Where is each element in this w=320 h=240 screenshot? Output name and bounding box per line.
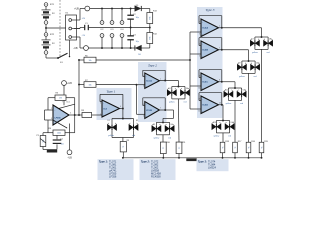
svg-text:IC4.A: IC4.A (202, 27, 208, 30)
svg-text:IC4: IC4 (121, 29, 124, 31)
svg-text:3: 3 (143, 86, 144, 88)
svg-text:+UB: +UB (67, 83, 72, 85)
svg-text:100k: 100k (57, 133, 61, 135)
svg-text:IC3: IC3 (111, 29, 114, 31)
svg-text:red: red (240, 103, 243, 105)
svg-text:yellow: yellow (154, 137, 160, 139)
svg-text:10k: 10k (88, 60, 91, 62)
svg-text:D6: D6 (171, 124, 173, 126)
svg-text:RC4558: RC4558 (151, 174, 161, 178)
svg-text:D2: D2 (136, 120, 138, 122)
svg-text:8: 8 (102, 22, 103, 24)
svg-text:1k: 1k (162, 147, 164, 149)
svg-text:10n: 10n (61, 144, 64, 146)
svg-text:4: 4 (102, 35, 103, 37)
svg-text:1k: 1k (122, 146, 124, 148)
svg-text:LF356: LF356 (109, 174, 117, 178)
svg-text:1k: 1k (233, 147, 235, 149)
svg-text:2: 2 (51, 108, 52, 110)
svg-text:yellow: yellow (108, 135, 114, 137)
svg-text:red: red (254, 76, 257, 78)
svg-text:red: red (228, 135, 231, 137)
svg-text:+UB: +UB (74, 9, 79, 11)
svg-text:D8: D8 (269, 39, 271, 41)
svg-text:red: red (168, 137, 171, 139)
svg-text:10: 10 (198, 88, 200, 90)
svg-text:10k: 10k (88, 84, 91, 86)
svg-text:1M: 1M (59, 98, 62, 100)
svg-text:D4: D4 (186, 88, 188, 90)
svg-text:D10: D10 (256, 63, 259, 65)
svg-text:yellow: yellow (169, 101, 175, 103)
svg-text:8: 8 (112, 22, 113, 24)
svg-text:yellow: yellow (214, 135, 220, 137)
svg-text:D13: D13 (213, 122, 216, 124)
svg-text:4: 4 (112, 35, 113, 37)
svg-text:3k9: 3k9 (148, 36, 150, 39)
svg-text:IC4.D: IC4.D (202, 104, 208, 107)
svg-text:4: 4 (122, 35, 123, 37)
svg-text:D14: D14 (231, 122, 234, 124)
svg-text:IC4.B: IC4.B (202, 49, 208, 52)
svg-text:IC4.C: IC4.C (202, 81, 208, 84)
svg-text:8: 8 (122, 22, 123, 24)
svg-text:red: red (267, 52, 270, 54)
svg-text:Type 1: Type 1 (107, 90, 116, 94)
svg-text:D7: D7 (251, 39, 253, 41)
svg-text:IC3.B: IC3.B (146, 110, 152, 112)
svg-text:Type 1:: Type 1: (99, 160, 108, 164)
svg-text:7: 7 (219, 47, 220, 49)
svg-text:Type 2:: Type 2: (141, 160, 150, 164)
svg-text:D5: D5 (153, 124, 155, 126)
svg-text:Type 3: Type 3 (206, 8, 215, 12)
svg-text:5: 5 (143, 116, 144, 118)
svg-text:yellow: yellow (239, 76, 245, 78)
svg-text:1k: 1k (177, 147, 179, 149)
svg-text:3: 3 (51, 118, 52, 120)
svg-text:IC3.A: IC3.A (146, 80, 152, 83)
svg-text:7: 7 (62, 102, 63, 104)
svg-text:IC2: IC2 (101, 29, 104, 31)
svg-text:14: 14 (219, 102, 221, 104)
svg-text:1k: 1k (221, 147, 223, 149)
svg-text:3k9: 3k9 (148, 16, 150, 19)
svg-text:yellow: yellow (252, 52, 258, 54)
svg-text:D3: D3 (168, 88, 170, 90)
svg-text:Type 2: Type 2 (148, 64, 157, 68)
svg-text:1k: 1k (247, 147, 249, 149)
svg-text:1k: 1k (260, 147, 262, 149)
svg-text:D12: D12 (243, 90, 246, 92)
svg-text:Type 3:: Type 3: (198, 160, 207, 164)
svg-text:1: 1 (219, 25, 220, 27)
svg-text:4: 4 (66, 127, 67, 129)
svg-text:12: 12 (198, 111, 200, 113)
svg-text:−UB: −UB (73, 48, 78, 50)
svg-text:red: red (184, 101, 187, 103)
svg-text:LM324: LM324 (208, 165, 216, 169)
svg-text:6: 6 (120, 106, 121, 108)
svg-text:D11: D11 (225, 90, 228, 92)
svg-text:yellow: yellow (226, 103, 232, 105)
svg-text:−UB: −UB (67, 157, 72, 159)
svg-text:D9: D9 (238, 63, 240, 65)
svg-text:D1: D1 (108, 120, 110, 122)
svg-text:8: 8 (219, 79, 220, 81)
svg-text:LF356: LF356 (55, 118, 62, 120)
svg-text:red: red (132, 135, 135, 137)
svg-text:6: 6 (70, 113, 71, 115)
